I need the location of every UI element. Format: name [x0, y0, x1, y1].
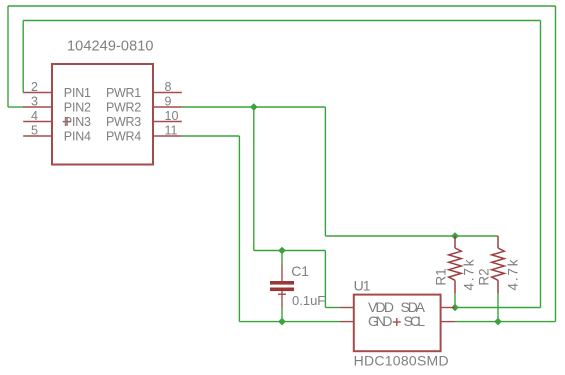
svg-text:4: 4: [31, 109, 38, 123]
net VDD: wire C1 top lead: [281, 251, 283, 265]
svg-text:PWR3: PWR3: [106, 115, 141, 129]
net SCL: wire right vertical: [555, 6, 557, 322]
svg-text:PWR1: PWR1: [106, 86, 141, 100]
junction at C1 bottom / GND: [278, 318, 286, 326]
capacitor C1 bottom plate: [270, 288, 294, 292]
pin 3 stub: [23, 106, 52, 108]
svg-text:3: 3: [31, 95, 38, 109]
svg-text:104249-0810: 104249-0810: [67, 39, 154, 55]
resistor R2 top lead: [497, 236, 499, 248]
pin 4 stub: [23, 121, 52, 123]
resistor R1 top lead: [454, 236, 456, 248]
svg-text:R2: R2: [476, 268, 491, 285]
svg-text:5: 5: [31, 124, 38, 138]
capacitor C1 bottom lead: [281, 291, 283, 308]
pin 5 stub: [23, 135, 52, 137]
net SDA: wire left vertical to pin 2: [22, 21, 24, 93]
pin SDA stub: [441, 307, 455, 309]
svg-text:PWR4: PWR4: [106, 129, 141, 143]
net GND: wire from pin 11: [182, 135, 240, 137]
junction at pin 9 / VDD: [250, 103, 258, 111]
pin 11 stub: [153, 135, 182, 137]
net SDA: wire horizontal to SDA pin: [455, 307, 541, 309]
connector J1 origin cross: [63, 121, 72, 123]
svg-text:GND: GND: [368, 313, 393, 329]
pin GND stub: [339, 321, 353, 323]
net VDD: wire resistor top rail: [325, 235, 498, 237]
svg-text:11: 11: [165, 124, 178, 138]
resistor R2 bottom lead: [497, 280, 499, 293]
capacitor C1 top plate: [270, 281, 294, 285]
net SDA: wire R1 bottom lead: [454, 294, 456, 308]
pin 10 stub: [153, 121, 182, 123]
IC U1 body: [354, 295, 441, 352]
svg-text:4.7k: 4.7k: [462, 259, 477, 290]
svg-text:PWR2: PWR2: [106, 100, 141, 114]
capacitor C1 origin cross: [278, 293, 286, 295]
svg-text:2: 2: [31, 80, 38, 94]
svg-text:9: 9: [165, 95, 172, 109]
svg-text:U1: U1: [354, 278, 371, 294]
net VDD: wire vertical down: [324, 107, 326, 236]
net VDD: wire vertical down to VDD row: [324, 251, 326, 308]
pin 8 stub: [153, 92, 182, 94]
pin VDD stub: [339, 307, 353, 309]
pin 9 stub: [153, 106, 182, 108]
svg-text:4.7k: 4.7k: [506, 259, 521, 290]
net VDD: wire to VDD pin: [325, 307, 339, 309]
pin SCL stub: [441, 321, 455, 323]
junction at R1 bottom / SDA: [451, 304, 459, 312]
net SDA: wire top horizontal: [23, 20, 540, 22]
svg-text:8: 8: [165, 80, 172, 94]
net VDD: wire vertical from junction: [253, 107, 255, 251]
svg-text:10: 10: [165, 109, 179, 123]
connector J1 body: [52, 64, 153, 165]
net GND: wire bottom horizontal to GND pin: [239, 321, 339, 323]
svg-text:SCL: SCL: [404, 313, 426, 329]
svg-text:PIN1: PIN1: [64, 86, 91, 100]
svg-text:PIN3: PIN3: [64, 115, 91, 129]
net VDD: wire from pin 9: [182, 106, 326, 108]
svg-text:C1: C1: [291, 263, 309, 279]
capacitor C1 top lead: [281, 265, 283, 282]
svg-text:PIN4: PIN4: [64, 129, 91, 143]
svg-text:0.1uF: 0.1uF: [292, 293, 325, 308]
net SCL: wire top horizontal: [8, 5, 556, 7]
junction at C1 top: [278, 247, 286, 255]
net SDA: wire right vertical: [540, 21, 542, 308]
junction at R1 top: [451, 232, 459, 240]
resistor R1 bottom lead: [454, 280, 456, 293]
net SCL: wire left vertical: [7, 6, 9, 107]
net GND: wire vertical down: [238, 136, 240, 322]
net SCL: wire bottom horizontal to SCL pin: [455, 321, 556, 323]
net VDD: wire rail to C1 top: [254, 250, 326, 252]
net GND: wire C1 bottom lead: [281, 308, 283, 322]
junction at R2 bottom / SCL: [494, 318, 502, 326]
net SCL: wire stub to pin 3: [8, 106, 24, 108]
pin 2 stub: [23, 92, 52, 94]
svg-text:R1: R1: [434, 268, 449, 285]
net SCL: wire R2 bottom lead: [497, 294, 499, 322]
svg-text:HDC1080SMD: HDC1080SMD: [354, 352, 449, 368]
IC U1 origin cross: [393, 321, 401, 323]
resistor R2 zigzag: [492, 248, 505, 280]
svg-text:PIN2: PIN2: [64, 100, 91, 114]
resistor R1 zigzag: [449, 248, 462, 280]
